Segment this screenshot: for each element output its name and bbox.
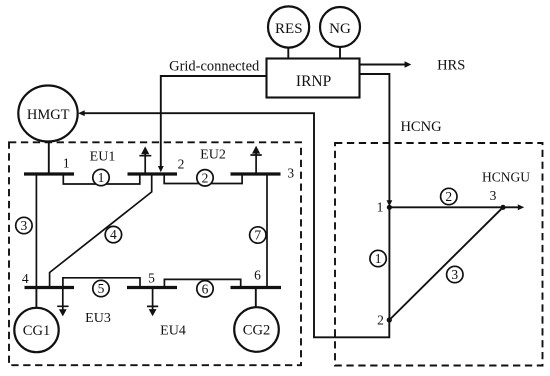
svg-text:7: 7 — [254, 228, 261, 243]
svg-text:HCNGU: HCNGU — [482, 170, 530, 185]
HCNGU output arrow — [504, 204, 525, 210]
svg-text:2: 2 — [202, 170, 209, 185]
svg-text:3: 3 — [451, 267, 458, 282]
branch number 3 — [16, 217, 32, 233]
pipeline number 3 — [447, 266, 463, 282]
branch number 6 — [197, 281, 213, 297]
bus 5 — [127, 286, 177, 289]
svg-text:EU1: EU1 — [90, 150, 116, 165]
svg-text:CG1: CG1 — [23, 323, 50, 339]
svg-text:Grid-connected: Grid-connected — [169, 59, 260, 75]
svg-text:1: 1 — [98, 170, 105, 185]
svg-text:2: 2 — [377, 313, 384, 328]
branch number 5 — [93, 280, 109, 296]
wire IRNP to gas node 1 (HCNG) — [360, 74, 393, 206]
branch number 4 — [105, 226, 121, 242]
branch line 3 (bus1-bus4) — [35, 175, 37, 286]
gas subsystem dashed box — [335, 143, 543, 366]
wire NG to IRNP — [339, 47, 341, 59]
svg-text:2: 2 — [178, 157, 185, 172]
svg-text:3: 3 — [490, 188, 497, 203]
pipeline number 2 — [441, 188, 457, 204]
svg-text:3: 3 — [287, 166, 294, 181]
svg-text:2: 2 — [445, 189, 452, 204]
generator HMGT — [18, 86, 77, 142]
pipeline 1 (node1-node2) — [388, 207, 390, 320]
load arrow bus 3 — [250, 146, 261, 173]
wire bus 6 to CG2 — [255, 289, 257, 308]
svg-text:5: 5 — [148, 271, 155, 286]
wire HRS output arrow — [360, 61, 412, 68]
pipeline 2 (node1-node3) — [389, 206, 503, 208]
bus 2 — [128, 172, 178, 175]
branch line 4 (bus2-bus4) — [50, 175, 152, 286]
generator RES — [268, 6, 309, 47]
branch number 1 — [93, 169, 109, 185]
svg-text:HCNG: HCNG — [400, 119, 442, 135]
branch line 5 (bus4-bus5) — [63, 278, 140, 286]
svg-text:HRS: HRS — [437, 58, 465, 74]
electrical subsystem dashed box — [9, 142, 301, 365]
svg-text:4: 4 — [22, 271, 29, 286]
wire grid-connected IRNP to bus 2 — [158, 76, 267, 172]
bus 6 — [231, 286, 282, 289]
svg-text:6: 6 — [202, 281, 209, 296]
gas node 3 — [500, 205, 505, 210]
load arrow bus 5 — [147, 289, 158, 316]
svg-text:6: 6 — [254, 268, 261, 283]
svg-text:HMGT: HMGT — [27, 107, 70, 123]
svg-text:RES: RES — [275, 21, 303, 37]
svg-text:EU2: EU2 — [200, 148, 226, 163]
converter IRNP — [267, 59, 360, 98]
wire gas node 2 to HMGT — [78, 110, 389, 337]
svg-text:5: 5 — [98, 281, 105, 296]
branch line 7 (bus3-bus6) — [266, 175, 268, 286]
generator NG — [320, 7, 360, 47]
svg-text:NG: NG — [329, 21, 351, 37]
load arrow bus 4 — [57, 289, 68, 316]
svg-text:1: 1 — [63, 156, 70, 171]
wire RES to IRNP — [287, 48, 289, 59]
gas node 2 — [387, 317, 392, 322]
load arrow bus 2 — [139, 146, 151, 172]
svg-text:IRNP: IRNP — [296, 73, 331, 90]
gas node 1 — [387, 205, 392, 210]
svg-text:EU4: EU4 — [160, 323, 186, 338]
svg-text:1: 1 — [377, 199, 384, 214]
branch line 2 (bus2-bus3) — [164, 175, 242, 184]
pipeline 3 (node2-node3) — [389, 207, 503, 320]
bus 4 — [25, 286, 75, 289]
svg-text:4: 4 — [110, 227, 117, 242]
svg-text:EU3: EU3 — [85, 311, 111, 326]
svg-text:CG2: CG2 — [243, 323, 270, 339]
svg-text:3: 3 — [21, 218, 28, 233]
branch line 1 (bus1-bus2) — [63, 175, 140, 184]
generator CG1 — [14, 308, 58, 352]
branch number 7 — [250, 227, 266, 243]
bus 1 — [24, 172, 74, 175]
bus 3 — [231, 172, 281, 175]
generator CG2 — [234, 307, 279, 352]
wire bus 4 to CG1 — [35, 289, 37, 308]
svg-text:1: 1 — [375, 251, 382, 266]
branch line 6 (bus5-bus6) — [164, 279, 240, 286]
pipeline number 1 — [370, 250, 386, 266]
branch number 2 — [197, 170, 213, 186]
wire HMGT to bus 1 — [48, 142, 50, 173]
